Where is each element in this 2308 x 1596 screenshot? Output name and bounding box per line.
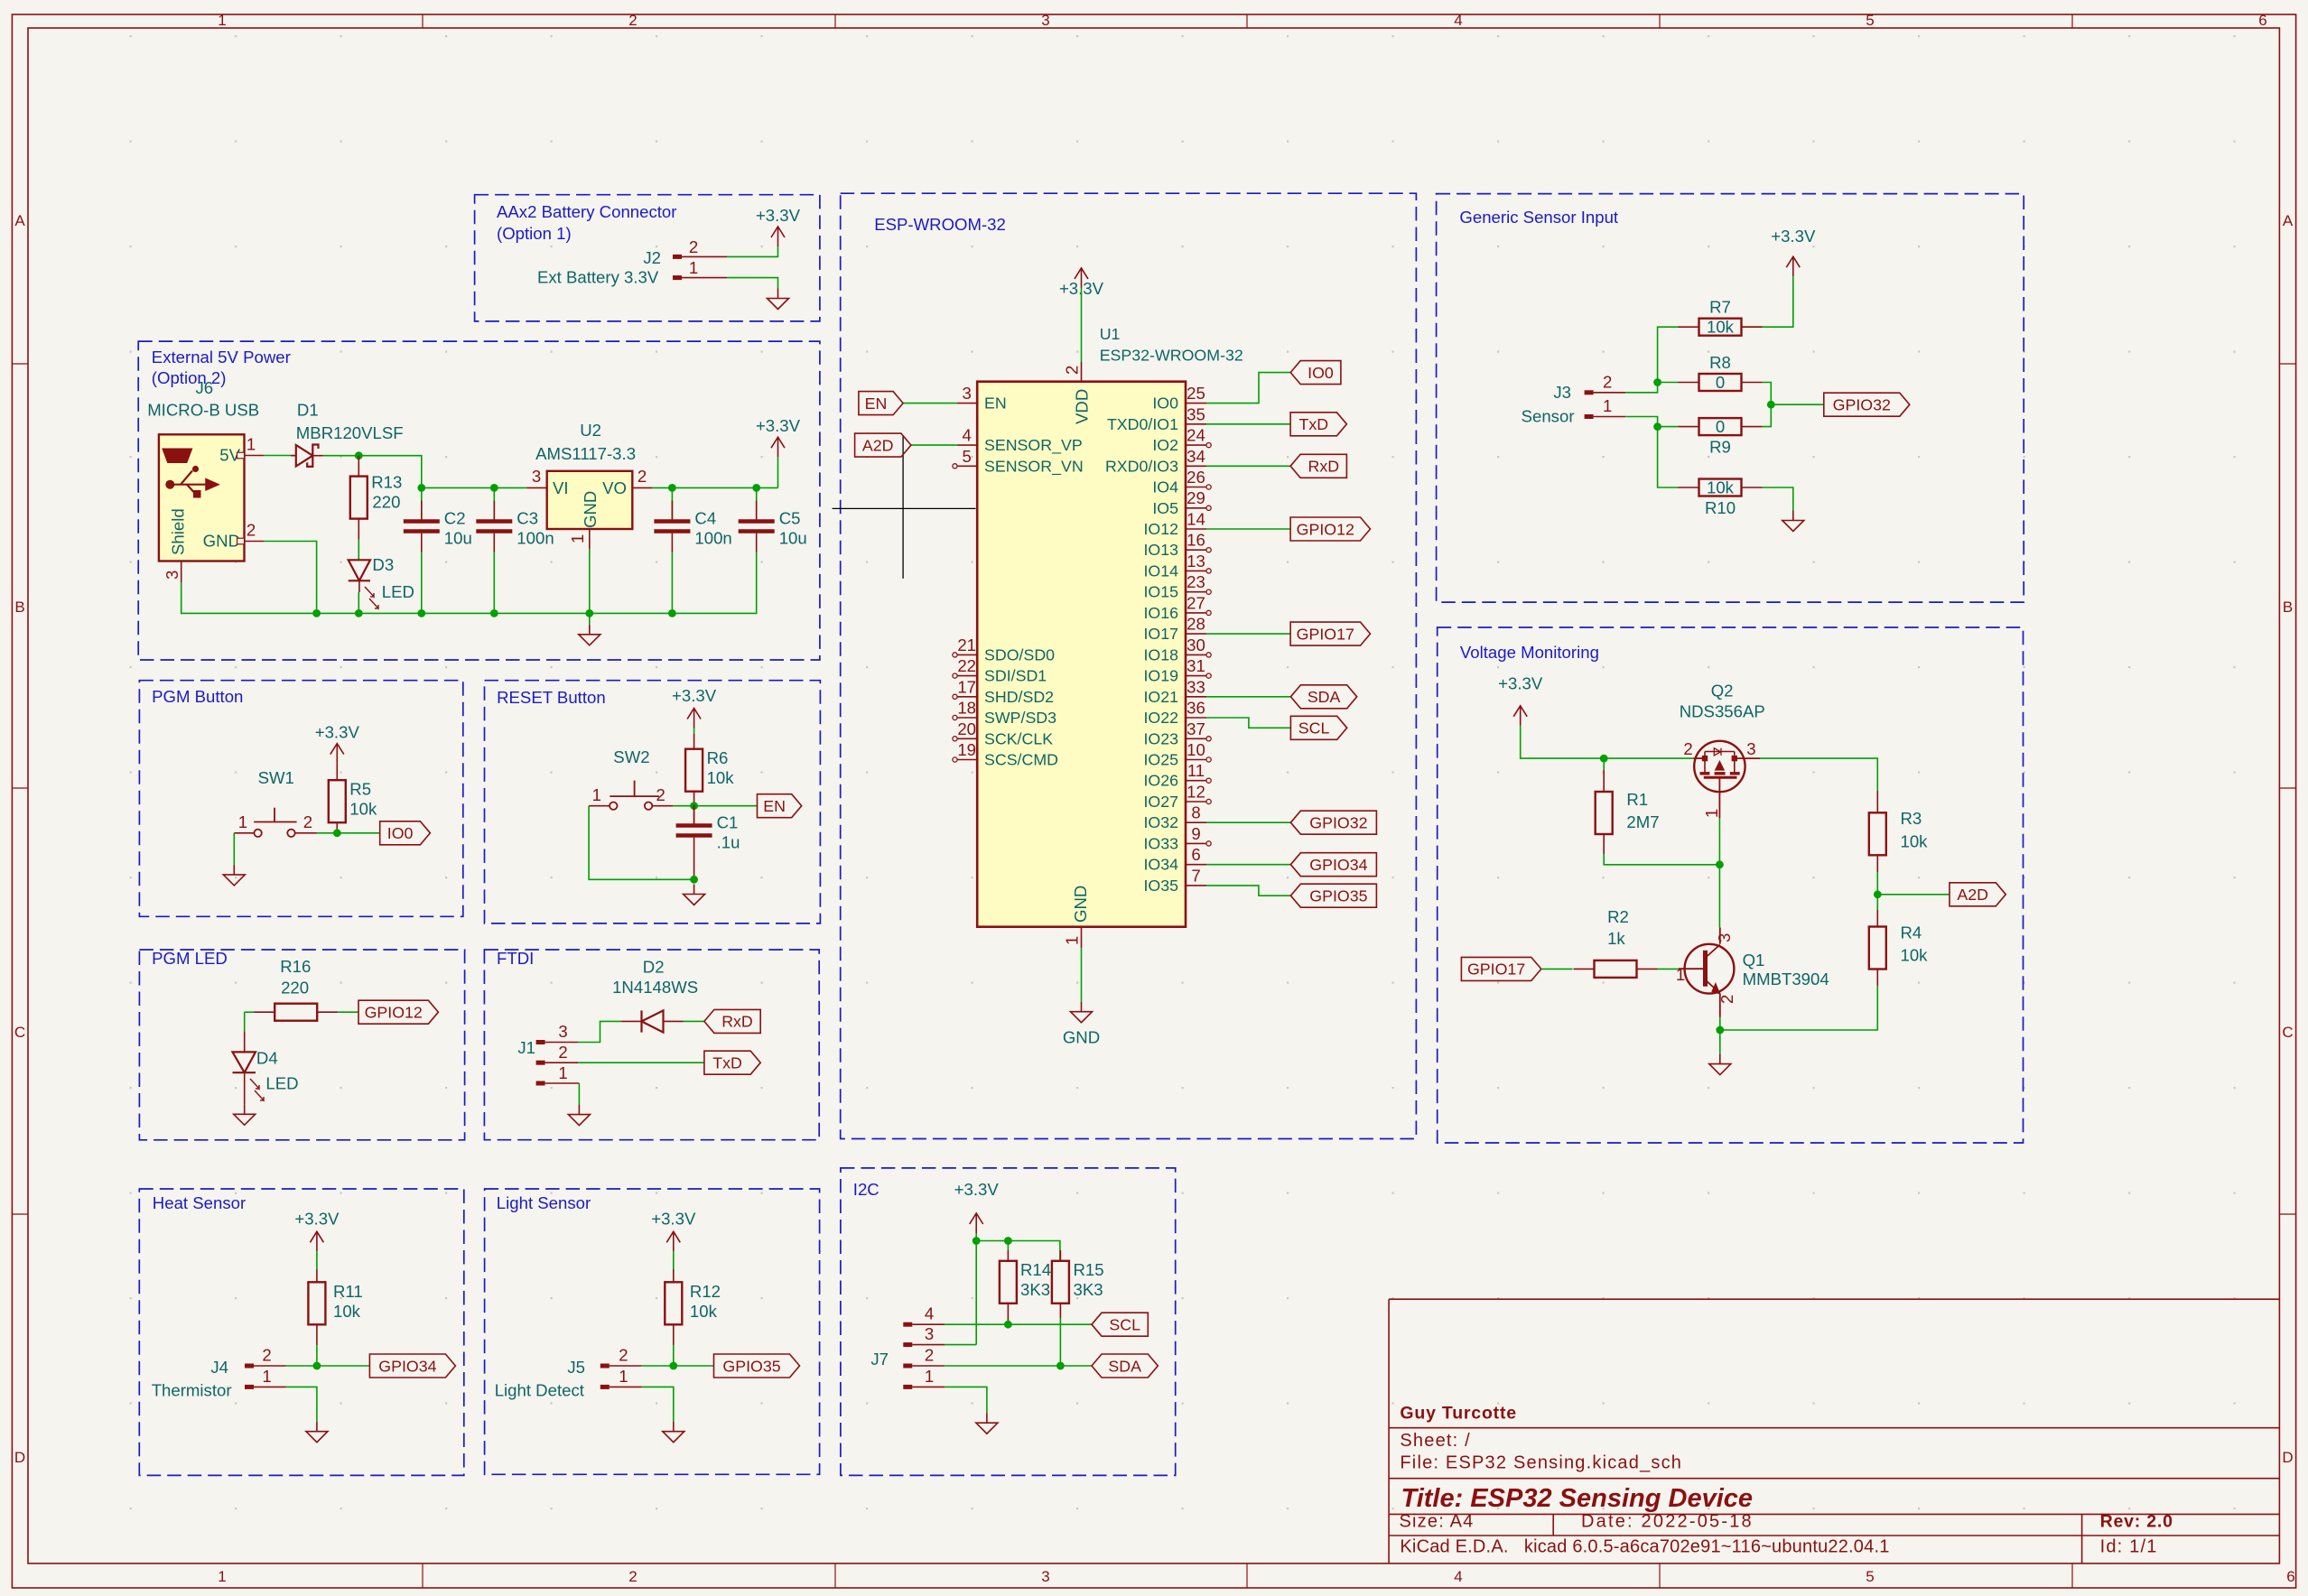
wire bbox=[1719, 1017, 1721, 1030]
connector J7 bbox=[870, 1304, 945, 1387]
junction bbox=[1056, 1362, 1065, 1370]
wire bbox=[945, 1344, 976, 1346]
svg-text:R12: R12 bbox=[690, 1282, 721, 1301]
svg-text:R16: R16 bbox=[280, 957, 311, 976]
wire bbox=[1658, 427, 1679, 487]
label RxD bbox=[704, 1009, 760, 1033]
svg-text:KiCad E.D.A. kicad 6.0.5-a6c: KiCad E.D.A. kicad 6.0.5-a6ca702e91~116~… bbox=[1400, 1537, 1889, 1557]
svg-text:36: 36 bbox=[1187, 699, 1205, 718]
wire bbox=[975, 1233, 977, 1345]
label EN bbox=[758, 794, 802, 818]
svg-text:MICRO-B USB: MICRO-B USB bbox=[147, 400, 259, 419]
ground bbox=[223, 865, 245, 886]
svg-text:D: D bbox=[14, 1449, 25, 1466]
wire bbox=[286, 1387, 317, 1421]
wire bbox=[1206, 423, 1290, 425]
svg-text:Shield: Shield bbox=[169, 508, 188, 555]
wire bbox=[1521, 726, 1694, 758]
svg-text:Light Detect: Light Detect bbox=[495, 1381, 585, 1400]
label EN bbox=[859, 392, 903, 415]
svg-text:D2: D2 bbox=[643, 957, 665, 976]
svg-text:IO27: IO27 bbox=[1143, 793, 1178, 811]
svg-text:IO13: IO13 bbox=[1143, 541, 1178, 559]
svg-text:D1: D1 bbox=[297, 400, 319, 419]
junction bbox=[1767, 401, 1775, 409]
svg-text:14: 14 bbox=[1187, 510, 1205, 529]
svg-text:IO0: IO0 bbox=[387, 824, 414, 842]
wire bbox=[642, 1387, 674, 1421]
resistor R8 0 bbox=[1679, 353, 1763, 392]
svg-text:VO: VO bbox=[602, 478, 627, 497]
svg-text:GND: GND bbox=[581, 491, 600, 528]
wire bbox=[1763, 404, 1772, 426]
resistor R16 220 bbox=[245, 957, 339, 1021]
resistor R14 3K3 bbox=[1000, 1241, 1051, 1325]
svg-text:6: 6 bbox=[2258, 12, 2266, 29]
resistor R10 10k bbox=[1679, 478, 1763, 517]
svg-text:1k: 1k bbox=[1607, 929, 1625, 948]
wire bbox=[777, 457, 779, 487]
resistor R9 0 bbox=[1679, 417, 1763, 456]
label TxD bbox=[704, 1051, 760, 1074]
junction bbox=[690, 802, 698, 810]
svg-text:2: 2 bbox=[558, 1043, 567, 1062]
svg-text:SDO/SD0: SDO/SD0 bbox=[984, 645, 1055, 663]
svg-text:NDS356AP: NDS356AP bbox=[1680, 702, 1765, 721]
svg-text:R10: R10 bbox=[1705, 498, 1736, 517]
svg-text:2: 2 bbox=[1603, 372, 1612, 391]
wire bbox=[673, 1251, 675, 1269]
svg-text:+3.3V: +3.3V bbox=[1771, 227, 1816, 246]
svg-text:37: 37 bbox=[1187, 719, 1205, 738]
wire bbox=[589, 806, 694, 880]
wire bbox=[1771, 404, 1824, 405]
svg-text:IO14: IO14 bbox=[1143, 561, 1178, 580]
svg-text:SENSOR_VP: SENSOR_VP bbox=[984, 436, 1083, 455]
junction bbox=[669, 1362, 677, 1370]
svg-text:GND: GND bbox=[203, 532, 240, 551]
svg-text:13: 13 bbox=[1187, 552, 1205, 571]
svg-text:2: 2 bbox=[619, 1346, 628, 1365]
junction bbox=[490, 609, 498, 617]
switch SW2 bbox=[589, 747, 673, 810]
svg-text:SCL: SCL bbox=[1298, 719, 1330, 738]
svg-text:+3.3V: +3.3V bbox=[954, 1180, 1000, 1199]
resistor R13 220 bbox=[350, 456, 403, 540]
svg-text:1: 1 bbox=[218, 12, 226, 29]
svg-text:11: 11 bbox=[1187, 761, 1205, 780]
svg-text:+3.3V: +3.3V bbox=[315, 723, 360, 742]
svg-text:100n: 100n bbox=[694, 529, 731, 548]
svg-text:2: 2 bbox=[628, 1568, 637, 1585]
svg-text:R11: R11 bbox=[333, 1282, 363, 1301]
resistor R4 10k bbox=[1869, 910, 1928, 986]
wire bbox=[264, 455, 296, 457]
svg-text:EN: EN bbox=[865, 394, 888, 413]
svg-text:AAx2 Battery Connector: AAx2 Battery Connector bbox=[497, 202, 676, 221]
wire bbox=[1625, 417, 1658, 427]
svg-text:100n: 100n bbox=[517, 529, 554, 548]
wire bbox=[1876, 872, 1878, 910]
svg-text:1: 1 bbox=[1676, 965, 1685, 984]
svg-text:1: 1 bbox=[619, 1367, 628, 1386]
svg-text:RESET Button: RESET Button bbox=[497, 688, 606, 707]
svg-text:J3: J3 bbox=[1553, 383, 1571, 402]
ground bbox=[1063, 1002, 1100, 1047]
svg-text:Light Sensor: Light Sensor bbox=[497, 1193, 591, 1212]
ground bbox=[663, 1422, 684, 1443]
svg-text:22: 22 bbox=[957, 656, 976, 675]
svg-text:IO23: IO23 bbox=[1143, 729, 1178, 747]
svg-text:C3: C3 bbox=[517, 509, 538, 528]
svg-text:5: 5 bbox=[1866, 1568, 1874, 1585]
svg-text:GPIO34: GPIO34 bbox=[1309, 856, 1367, 874]
svg-text:Id: 1/1: Id: 1/1 bbox=[2100, 1537, 2158, 1557]
section box PGM LED bbox=[139, 950, 464, 1140]
svg-text:(Option 2): (Option 2) bbox=[152, 368, 227, 387]
svg-text:U1: U1 bbox=[1100, 325, 1121, 343]
svg-text:+3.3V: +3.3V bbox=[1498, 674, 1543, 693]
wire bbox=[1763, 487, 1793, 511]
svg-text:IO0: IO0 bbox=[1152, 394, 1178, 413]
junction bbox=[1004, 1237, 1012, 1245]
ground bbox=[976, 1413, 998, 1434]
svg-text:8: 8 bbox=[1191, 803, 1200, 822]
connector J1 bbox=[517, 1022, 579, 1083]
svg-text:ESP32-WROOM-32: ESP32-WROOM-32 bbox=[1100, 347, 1243, 365]
wire bbox=[945, 1387, 987, 1413]
label GPIO32 bbox=[1290, 811, 1376, 834]
junction bbox=[752, 484, 760, 492]
section box I2C bbox=[841, 1168, 1176, 1476]
svg-text:R8: R8 bbox=[1709, 353, 1731, 372]
svg-text:25: 25 bbox=[1187, 384, 1205, 403]
wire bbox=[684, 1020, 704, 1022]
capacitor C3 100n bbox=[476, 487, 554, 613]
label A2D bbox=[1950, 883, 2006, 906]
label IO0 bbox=[1290, 361, 1341, 385]
wire bbox=[1658, 426, 1679, 428]
resistor R11 10k bbox=[308, 1269, 362, 1345]
svg-text:220: 220 bbox=[281, 979, 309, 997]
svg-text:3: 3 bbox=[925, 1324, 934, 1343]
power +3.3V bbox=[651, 1209, 696, 1251]
resistor R1 2M7 bbox=[1596, 758, 1660, 854]
svg-text:0: 0 bbox=[1716, 417, 1725, 436]
svg-text:C4: C4 bbox=[694, 509, 716, 528]
svg-text:1: 1 bbox=[1063, 936, 1082, 945]
label GPIO35 bbox=[714, 1354, 800, 1378]
wire bbox=[578, 1021, 621, 1042]
svg-text:3: 3 bbox=[963, 384, 972, 403]
svg-text:26: 26 bbox=[1187, 468, 1205, 487]
svg-text:3: 3 bbox=[1041, 1568, 1049, 1585]
svg-text:GND: GND bbox=[1063, 1027, 1100, 1046]
section box Heat Sensor bbox=[139, 1189, 464, 1475]
svg-text:IO5: IO5 bbox=[1152, 499, 1178, 517]
section box External 5V Power bbox=[138, 341, 820, 660]
svg-text:2: 2 bbox=[1063, 366, 1082, 375]
svg-text:Q1: Q1 bbox=[1743, 951, 1765, 970]
svg-text:D: D bbox=[2282, 1449, 2293, 1466]
svg-text:3: 3 bbox=[1746, 739, 1755, 758]
title block bbox=[1389, 1299, 2279, 1564]
wire bbox=[727, 278, 778, 289]
svg-text:1: 1 bbox=[262, 1367, 271, 1386]
svg-text:R15: R15 bbox=[1074, 1260, 1104, 1279]
wire bbox=[1081, 948, 1083, 1002]
transistor Q1 MMBT3904 bbox=[1676, 927, 1829, 1017]
junction bbox=[690, 876, 698, 884]
svg-text:IO18: IO18 bbox=[1143, 645, 1178, 663]
capacitor C1 .1u bbox=[676, 805, 740, 880]
svg-text:MBR120VLSF: MBR120VLSF bbox=[296, 423, 404, 442]
svg-text:2: 2 bbox=[262, 1346, 271, 1365]
power +3.3V bbox=[756, 416, 801, 457]
svg-text:30: 30 bbox=[1187, 636, 1205, 654]
label SCL bbox=[1092, 1313, 1148, 1336]
LED D4 bbox=[233, 1032, 299, 1105]
svg-text:C1: C1 bbox=[717, 813, 739, 832]
svg-text:A2D: A2D bbox=[1957, 886, 1988, 904]
wire bbox=[578, 1083, 580, 1105]
svg-text:GND: GND bbox=[1071, 886, 1090, 923]
resistor R7 10k bbox=[1679, 298, 1763, 337]
svg-text:4: 4 bbox=[1454, 1568, 1462, 1585]
svg-text:10: 10 bbox=[1187, 740, 1205, 759]
connector J2 bbox=[537, 237, 727, 287]
junction bbox=[668, 609, 676, 617]
svg-text:TxD: TxD bbox=[1299, 415, 1329, 433]
svg-text:3: 3 bbox=[163, 571, 181, 580]
connector J6 MICRO-B USB bbox=[147, 378, 264, 582]
svg-text:R4: R4 bbox=[1901, 923, 1922, 942]
wire bbox=[652, 487, 777, 488]
power +3.3V bbox=[672, 686, 717, 728]
svg-text:+3.3V: +3.3V bbox=[672, 686, 717, 705]
svg-text:R3: R3 bbox=[1901, 809, 1922, 828]
wire bbox=[1658, 968, 1680, 970]
wire bbox=[358, 592, 359, 613]
svg-text:31: 31 bbox=[1187, 656, 1205, 675]
svg-text:10k: 10k bbox=[1901, 946, 1929, 965]
svg-text:RxD: RxD bbox=[721, 1013, 753, 1031]
svg-text:27: 27 bbox=[1187, 593, 1205, 612]
svg-text:VDD: VDD bbox=[1073, 389, 1092, 424]
svg-text:1: 1 bbox=[247, 435, 256, 454]
svg-text:GPIO17: GPIO17 bbox=[1467, 960, 1525, 979]
svg-text:C2: C2 bbox=[444, 509, 466, 528]
svg-text:+3.3V: +3.3V bbox=[756, 206, 801, 225]
svg-text:28: 28 bbox=[1187, 615, 1205, 634]
wire bbox=[1604, 854, 1719, 865]
svg-text:IO17: IO17 bbox=[1143, 625, 1178, 643]
wire bbox=[358, 540, 359, 561]
ground bbox=[768, 289, 789, 310]
svg-text:GPIO12: GPIO12 bbox=[365, 1004, 423, 1022]
diode D1 MBR120VLSF bbox=[291, 400, 404, 467]
junction bbox=[333, 829, 341, 837]
svg-text:29: 29 bbox=[1187, 488, 1205, 507]
connector J4 bbox=[152, 1346, 286, 1400]
svg-text:2M7: 2M7 bbox=[1626, 812, 1659, 831]
svg-text:A2D: A2D bbox=[862, 436, 894, 454]
svg-text:Title: ESP32 Sensing Device: Title: ESP32 Sensing Device bbox=[1401, 1484, 1754, 1513]
svg-text:SCK/CLK: SCK/CLK bbox=[984, 729, 1053, 747]
power +3.3V bbox=[954, 1180, 1000, 1233]
LED D3 bbox=[349, 555, 414, 608]
label GPIO17 bbox=[1290, 622, 1370, 645]
svg-text:1: 1 bbox=[1603, 396, 1612, 415]
svg-text:D4: D4 bbox=[256, 1049, 278, 1068]
svg-text:D3: D3 bbox=[372, 555, 394, 574]
svg-text:3: 3 bbox=[1041, 12, 1049, 29]
label GPIO12 bbox=[358, 1000, 438, 1024]
svg-text:33: 33 bbox=[1187, 677, 1205, 696]
svg-text:GPIO34: GPIO34 bbox=[378, 1357, 436, 1375]
capacitor C2 10u bbox=[404, 487, 472, 613]
section box PGM Button bbox=[139, 681, 462, 917]
svg-text:Q2: Q2 bbox=[1711, 681, 1734, 700]
wire bbox=[338, 1011, 358, 1013]
label GPIO32 bbox=[1824, 393, 1910, 416]
svg-text:2: 2 bbox=[656, 785, 665, 804]
svg-text:GPIO17: GPIO17 bbox=[1297, 625, 1354, 643]
transistor Q2 NDS356AP bbox=[1680, 681, 1765, 818]
wire bbox=[1206, 373, 1290, 404]
junction bbox=[1600, 755, 1608, 763]
label GPIO17 bbox=[1461, 957, 1540, 980]
wire bbox=[1763, 383, 1772, 405]
power +3.3V bbox=[294, 1209, 340, 1251]
wire bbox=[976, 1241, 1060, 1261]
junction bbox=[1716, 1026, 1724, 1035]
svg-text:IO12: IO12 bbox=[1143, 520, 1178, 538]
svg-text:4: 4 bbox=[1454, 12, 1462, 29]
connector J3 bbox=[1522, 372, 1626, 425]
svg-text:10k: 10k bbox=[1901, 831, 1929, 850]
svg-text:1: 1 bbox=[1702, 809, 1721, 818]
svg-text:External 5V Power: External 5V Power bbox=[152, 348, 291, 367]
svg-text:Date: 2022-05-18: Date: 2022-05-18 bbox=[1581, 1512, 1754, 1532]
svg-text:PGM LED: PGM LED bbox=[152, 949, 228, 968]
wire bbox=[1206, 696, 1290, 698]
wire bbox=[589, 549, 591, 613]
wire bbox=[1206, 886, 1290, 895]
svg-text:Voltage Monitoring: Voltage Monitoring bbox=[1460, 643, 1599, 662]
svg-text:23: 23 bbox=[1187, 572, 1205, 591]
svg-text:10k: 10k bbox=[349, 800, 377, 819]
svg-text:2: 2 bbox=[1717, 995, 1736, 1004]
svg-text:7: 7 bbox=[1191, 866, 1200, 885]
junction bbox=[1874, 890, 1882, 898]
wire bbox=[673, 1345, 675, 1366]
section box AAx2 Battery Connector bbox=[475, 195, 820, 321]
resistor R5 10k bbox=[329, 764, 377, 833]
svg-text:C5: C5 bbox=[779, 509, 801, 528]
svg-text:File: ESP32 Sensing.kicad_sch: File: ESP32 Sensing.kicad_sch bbox=[1400, 1453, 1682, 1473]
wire bbox=[1718, 818, 1720, 927]
resistor R3 10k bbox=[1869, 791, 1928, 872]
svg-text:1: 1 bbox=[689, 258, 698, 277]
svg-text:EN: EN bbox=[984, 394, 1007, 413]
svg-text:J6: J6 bbox=[196, 378, 214, 397]
section box Generic Sensor Input bbox=[1437, 194, 2024, 602]
svg-text:Heat Sensor: Heat Sensor bbox=[153, 1193, 246, 1212]
svg-text:10k: 10k bbox=[707, 768, 735, 787]
svg-text:35: 35 bbox=[1187, 404, 1205, 423]
power +3.3V bbox=[315, 723, 360, 764]
svg-text:R14: R14 bbox=[1020, 1260, 1051, 1279]
svg-text:R2: R2 bbox=[1607, 907, 1629, 926]
wire bbox=[1206, 633, 1290, 635]
wire bbox=[1625, 383, 1658, 393]
svg-text:R5: R5 bbox=[349, 780, 371, 799]
wire bbox=[1206, 528, 1290, 530]
svg-text:R13: R13 bbox=[371, 472, 402, 491]
label SDA bbox=[1290, 685, 1356, 709]
svg-text:IO4: IO4 bbox=[1152, 478, 1178, 496]
svg-text:SCL: SCL bbox=[1109, 1316, 1140, 1334]
svg-text:SDA: SDA bbox=[1308, 688, 1341, 706]
ground bbox=[568, 1105, 590, 1126]
svg-text:J2: J2 bbox=[643, 248, 661, 267]
ground bbox=[306, 1422, 328, 1443]
svg-text:A: A bbox=[14, 212, 25, 229]
ground bbox=[1709, 1054, 1731, 1075]
junction bbox=[355, 451, 363, 459]
label SCL bbox=[1290, 716, 1346, 739]
svg-text:.1u: .1u bbox=[717, 833, 740, 852]
svg-text:5: 5 bbox=[1866, 12, 1874, 29]
svg-text:VI: VI bbox=[553, 478, 569, 497]
svg-text:10k: 10k bbox=[690, 1302, 718, 1321]
junction bbox=[312, 609, 321, 617]
svg-text:10k: 10k bbox=[1707, 318, 1735, 337]
svg-text:GPIO32: GPIO32 bbox=[1833, 396, 1891, 414]
svg-text:MMBT3904: MMBT3904 bbox=[1743, 970, 1829, 988]
svg-text:2: 2 bbox=[303, 812, 312, 831]
junction bbox=[1653, 422, 1661, 431]
svg-text:IO15: IO15 bbox=[1143, 583, 1178, 601]
svg-text:1: 1 bbox=[238, 812, 247, 831]
svg-text:16: 16 bbox=[1187, 531, 1205, 550]
junction bbox=[973, 1237, 981, 1245]
svg-text:IO26: IO26 bbox=[1143, 772, 1178, 790]
svg-text:GPIO12: GPIO12 bbox=[1297, 520, 1354, 538]
svg-text:B: B bbox=[2283, 598, 2293, 616]
wire bbox=[945, 1323, 1092, 1325]
svg-text:SW2: SW2 bbox=[613, 747, 649, 766]
svg-text:+3.3V: +3.3V bbox=[651, 1209, 696, 1228]
wire bbox=[1206, 465, 1290, 467]
svg-text:1: 1 bbox=[592, 785, 601, 804]
svg-text:C: C bbox=[2282, 1024, 2293, 1041]
ic U1 ESP32-WROOM-32 bbox=[953, 325, 1243, 948]
power +3.3V bbox=[1498, 674, 1543, 726]
junction bbox=[668, 484, 676, 492]
svg-text:SCS/CMD: SCS/CMD bbox=[984, 751, 1058, 769]
svg-text:SWP/SD3: SWP/SD3 bbox=[984, 709, 1056, 727]
svg-text:LED: LED bbox=[265, 1074, 298, 1093]
svg-text:4: 4 bbox=[925, 1304, 934, 1323]
capacitor C5 10u bbox=[739, 487, 807, 602]
svg-text:(Option 1): (Option 1) bbox=[497, 224, 572, 243]
label GPIO35 bbox=[1290, 884, 1376, 907]
svg-text:C: C bbox=[14, 1024, 25, 1041]
svg-text:5: 5 bbox=[963, 447, 972, 466]
connector J5 bbox=[495, 1346, 642, 1400]
